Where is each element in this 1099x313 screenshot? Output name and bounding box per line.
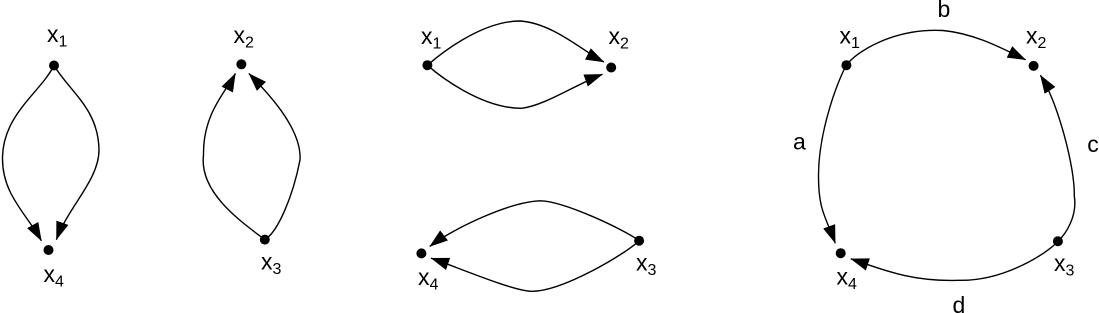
node cycle x1 dot [841,60,851,70]
node cycle x4 dot [836,248,846,258]
svg-text:x2: x2 [234,22,255,52]
wire: graph2 edge x3->x2 right curve [249,74,300,240]
node cycle x3 dot [1053,236,1063,246]
svg-text:x1: x1 [47,21,68,51]
svg-text:x1: x1 [421,23,442,53]
svg-text:x2: x2 [1026,23,1047,53]
svg-text:b: b [938,0,951,22]
svg-text:x4: x4 [418,264,439,294]
node graph3 x1 dot [422,60,432,70]
wire: cycle edge d x3->x4 [851,241,1058,280]
svg-text:x3: x3 [1054,250,1075,280]
node graph1 x4 dot [44,245,54,255]
node graph1 x1 dot [49,61,59,71]
svg-text:d: d [953,292,966,313]
svg-text:x1: x1 [840,23,861,53]
node graph4 x3 dot [634,236,644,246]
node graph2 x3 dot [260,235,270,245]
wire: graph1 edge x1->x4 left curve [2,66,54,241]
wire: graph3 edge x1->x2 lower curve [427,65,602,108]
svg-text:a: a [793,129,806,155]
node graph4 x4 dot [416,248,426,258]
svg-text:c: c [1087,131,1099,157]
wire: cycle edge c x3->x2 [1040,75,1074,241]
wire: graph4 edge x3->x4 upper curve [430,201,639,247]
wire: graph1 edge x1->x4 right curve [54,66,99,240]
svg-text:x4: x4 [44,261,65,291]
node graph2 x2 dot [236,59,246,69]
svg-text:x3: x3 [636,250,657,280]
wire: cycle edge a x1->x4 [818,65,846,243]
wire: graph4 edge x3->x4 lower curve [431,241,639,292]
svg-text:x2: x2 [609,23,630,53]
wire: graph3 edge x1->x2 upper curve [427,21,604,65]
wire: graph2 edge x3->x2 left curve [203,74,265,240]
node cycle x2 dot [1029,61,1039,71]
node graph3 x2 dot [606,63,616,73]
svg-text:x4: x4 [837,263,858,293]
wire: cycle edge b x1->x2 [846,30,1025,65]
svg-text:x3: x3 [261,249,282,279]
